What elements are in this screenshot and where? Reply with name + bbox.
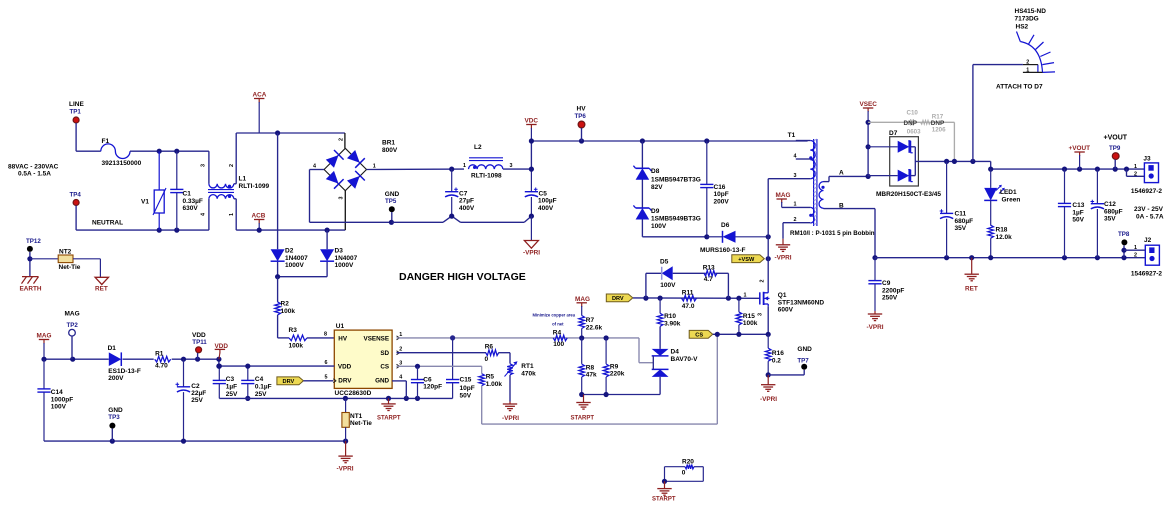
svg-text:Minimize copper area: Minimize copper area bbox=[533, 313, 576, 318]
svg-text:Net-Tie: Net-Tie bbox=[350, 420, 372, 427]
net tag CS bbox=[689, 330, 713, 338]
wire Q1 drain bbox=[767, 237, 769, 291]
bridge diode NE bbox=[346, 149, 365, 168]
diode D1 bbox=[109, 352, 122, 366]
pin name GND bbox=[375, 378, 389, 385]
pin name SD bbox=[380, 350, 389, 357]
value R11 bbox=[682, 303, 695, 310]
junction bypass left bbox=[643, 296, 648, 301]
junction Q1 source bbox=[766, 332, 771, 337]
label 23V bbox=[1134, 206, 1164, 213]
value C11 bbox=[955, 218, 974, 225]
resistor R15 bbox=[736, 298, 742, 334]
value C4 volt bbox=[255, 391, 267, 398]
junction pin4 gnd bbox=[404, 396, 409, 401]
svg-text:4.70: 4.70 bbox=[155, 362, 168, 369]
label TP2 bbox=[67, 322, 79, 329]
svg-text:0.5A - 1.5A: 0.5A - 1.5A bbox=[18, 171, 51, 178]
svg-text:2: 2 bbox=[339, 138, 345, 141]
ground STARPT divider bbox=[576, 395, 590, 410]
net tag DRV gate bbox=[606, 294, 633, 302]
net tag DRV U1 bbox=[277, 377, 304, 385]
junction R8 bottom bbox=[579, 392, 584, 397]
label TP7 bbox=[797, 358, 809, 365]
pin 3 L2 bbox=[510, 163, 513, 169]
svg-text:R20: R20 bbox=[682, 458, 694, 465]
svg-text:DRV: DRV bbox=[283, 379, 295, 385]
value C15 volt bbox=[460, 392, 472, 399]
value C14 volt bbox=[51, 404, 67, 411]
value U1 bbox=[335, 390, 372, 397]
capacitor C10 DNP bbox=[911, 119, 914, 126]
value D1 volt bbox=[108, 375, 124, 382]
wire node B bbox=[824, 209, 876, 258]
pin 2 BR1 bbox=[339, 138, 345, 141]
svg-text:100k: 100k bbox=[289, 343, 304, 350]
junction C13 top bbox=[1062, 167, 1067, 172]
value C3 volt bbox=[226, 391, 238, 398]
capacitor C12 bbox=[1091, 169, 1105, 258]
value C2 volt bbox=[191, 397, 203, 404]
junction C7 bottom bbox=[449, 214, 454, 219]
svg-text:GND: GND bbox=[375, 378, 389, 385]
wire bottom rail bbox=[875, 257, 1145, 259]
net VDD red bbox=[215, 343, 229, 350]
svg-text:DRV: DRV bbox=[612, 296, 624, 302]
svg-text:R16: R16 bbox=[772, 350, 784, 357]
svg-text:TP4: TP4 bbox=[70, 192, 82, 199]
svg-text:R10: R10 bbox=[664, 313, 676, 320]
svg-text:1: 1 bbox=[744, 292, 747, 298]
label R20 bbox=[682, 458, 694, 465]
junction VDD tick bbox=[216, 357, 221, 362]
svg-text:CS: CS bbox=[380, 364, 389, 371]
svg-text:RM10/I : P-1031 5 pin Bobbin: RM10/I : P-1031 5 pin Bobbin bbox=[790, 230, 875, 237]
junction TP2 bbox=[70, 357, 75, 362]
dnp R17 bbox=[931, 120, 945, 127]
connector J2 bbox=[1145, 245, 1159, 265]
label D2 bbox=[285, 248, 294, 255]
svg-text:ATTACH TO D7: ATTACH TO D7 bbox=[996, 84, 1043, 91]
label LED1 bbox=[1000, 189, 1017, 196]
svg-text:22µF: 22µF bbox=[191, 390, 206, 397]
ground -VPRI R16 bbox=[761, 375, 775, 391]
wire BR1 pin4 to dc- bbox=[310, 170, 392, 223]
svg-text:0603: 0603 bbox=[907, 129, 921, 136]
value D3 bbox=[335, 255, 358, 262]
value C13 bbox=[1072, 209, 1083, 216]
capacitor C3 bbox=[213, 366, 226, 398]
svg-text:1546927-2: 1546927-2 bbox=[1131, 188, 1162, 195]
value Q1 volt bbox=[778, 307, 794, 314]
pin 2 L1 bbox=[229, 164, 235, 167]
net tick VDD bbox=[215, 349, 225, 359]
label C13 bbox=[1072, 202, 1084, 209]
pin 4 U1 bbox=[399, 375, 402, 381]
net MAG R7 bbox=[575, 296, 590, 303]
pin 1 Q1 bbox=[744, 292, 747, 298]
svg-text:R4: R4 bbox=[553, 329, 562, 336]
node B bbox=[839, 203, 844, 210]
junction D7 top anode bbox=[866, 144, 871, 149]
svg-text:50V: 50V bbox=[1072, 217, 1084, 224]
svg-text:DRV: DRV bbox=[338, 378, 352, 385]
svg-text:88VAC - 230VAC: 88VAC - 230VAC bbox=[8, 164, 59, 171]
svg-text:D6: D6 bbox=[721, 222, 730, 229]
svg-text:RLTI-1098: RLTI-1098 bbox=[471, 172, 502, 179]
resistor R8 bbox=[579, 338, 585, 395]
net STARPT R20 bbox=[652, 497, 676, 503]
capacitor C4 bbox=[241, 366, 254, 398]
svg-text:82V: 82V bbox=[651, 184, 663, 191]
net STARPT U1 bbox=[377, 415, 401, 421]
label NT1 bbox=[350, 413, 363, 420]
junction TP11 bbox=[195, 357, 200, 362]
pin 1 J2 bbox=[1134, 245, 1137, 251]
svg-text:120pF: 120pF bbox=[423, 384, 442, 391]
wire vsense jog to D4 bbox=[639, 338, 653, 363]
wire heatsink to rail bbox=[973, 65, 1023, 162]
value D8 volt bbox=[651, 184, 663, 191]
junction +VSW bbox=[766, 256, 771, 261]
led LED1 bbox=[984, 169, 1005, 225]
junction R10 top bbox=[658, 296, 663, 301]
wire T1 pin1 MAG bbox=[782, 206, 811, 208]
label D6 bbox=[721, 222, 730, 229]
value C1 volt bbox=[183, 205, 199, 212]
svg-text:400V: 400V bbox=[459, 205, 475, 212]
svg-text:C13: C13 bbox=[1072, 202, 1084, 209]
test point TP7 bbox=[801, 364, 807, 370]
resistor R13 bbox=[704, 271, 717, 277]
svg-text:1000V: 1000V bbox=[335, 262, 354, 269]
label TP9 bbox=[1109, 145, 1121, 152]
svg-text:R11: R11 bbox=[682, 289, 694, 296]
resistor R10 bbox=[657, 298, 663, 326]
label D5 bbox=[660, 258, 669, 265]
wire TP2 stub bbox=[71, 336, 74, 359]
bridge diode NW bbox=[325, 150, 344, 169]
label 7173DG bbox=[1015, 15, 1039, 22]
svg-text:D2: D2 bbox=[285, 248, 294, 255]
diode D7 top bbox=[868, 141, 913, 153]
pin name DRV bbox=[338, 378, 352, 385]
junction C12 bottom bbox=[1095, 255, 1100, 260]
tiny minimize bbox=[533, 313, 576, 318]
svg-text:27µF: 27µF bbox=[459, 198, 474, 205]
label R13 bbox=[703, 264, 715, 271]
diode D4 top bbox=[652, 349, 669, 356]
svg-text:680µF: 680µF bbox=[1104, 208, 1123, 215]
svg-text:STARPT: STARPT bbox=[571, 416, 595, 422]
label R7 bbox=[586, 317, 595, 324]
label D9 bbox=[651, 208, 660, 215]
label F1 bbox=[102, 138, 110, 145]
pin 3 T1 bbox=[794, 173, 797, 179]
svg-text:RLTI-1099: RLTI-1099 bbox=[239, 183, 270, 190]
wire T1 top pin bbox=[796, 140, 811, 142]
label L1 bbox=[239, 176, 247, 183]
value Q1 bbox=[778, 299, 825, 306]
junction NT1 top bbox=[343, 396, 348, 401]
svg-text:D9: D9 bbox=[651, 208, 660, 215]
label bobbin bbox=[790, 230, 875, 237]
svg-text:1546927-2: 1546927-2 bbox=[1131, 271, 1162, 278]
svg-text:3: 3 bbox=[339, 197, 345, 200]
junction R18 bottom bbox=[988, 255, 993, 260]
value C12 bbox=[1104, 208, 1123, 215]
wire VSENSE bbox=[397, 337, 640, 339]
value C6 bbox=[423, 384, 442, 391]
svg-text:R7: R7 bbox=[586, 317, 595, 324]
capacitor C9 bbox=[868, 258, 881, 311]
value BR1 bbox=[382, 147, 398, 154]
wire TP6 stub bbox=[581, 128, 583, 141]
capacitor C16 bbox=[700, 141, 713, 237]
rectifier D7 box bbox=[890, 137, 919, 186]
wire bypass branch bbox=[646, 273, 729, 298]
wire R16 to TP7 bbox=[768, 370, 804, 375]
svg-text:STARPT: STARPT bbox=[652, 497, 676, 503]
value R20 bbox=[682, 470, 686, 477]
svg-text:C1: C1 bbox=[183, 191, 192, 198]
value D6 bbox=[700, 247, 746, 254]
label C14 bbox=[51, 389, 63, 396]
svg-text:F1: F1 bbox=[102, 138, 110, 145]
test point TP5 bbox=[389, 206, 395, 212]
svg-text:0.33µF: 0.33µF bbox=[183, 198, 203, 205]
svg-text:C7: C7 bbox=[459, 190, 468, 197]
svg-text:1.00k: 1.00k bbox=[486, 381, 503, 388]
diode D7 bottom bbox=[868, 170, 913, 182]
svg-text:+VSW: +VSW bbox=[738, 257, 755, 263]
svg-text:1: 1 bbox=[1134, 245, 1137, 251]
net RET bbox=[965, 285, 978, 292]
svg-text:8: 8 bbox=[324, 332, 327, 338]
svg-text:MAG: MAG bbox=[65, 311, 80, 318]
resistor R3 bbox=[289, 335, 307, 341]
svg-text:50V: 50V bbox=[460, 392, 472, 399]
net tick VSEC bbox=[863, 108, 873, 122]
svg-text:1SMB5949BT3G: 1SMB5949BT3G bbox=[651, 216, 701, 223]
junction LED top bbox=[988, 167, 993, 172]
value R2 bbox=[281, 308, 296, 315]
label TP3 bbox=[108, 414, 120, 421]
pin 2 HS2 bbox=[1026, 59, 1029, 65]
junction CS long bbox=[715, 332, 720, 337]
svg-text:MAG: MAG bbox=[776, 192, 791, 199]
label R18 bbox=[996, 227, 1008, 234]
wire R2 to R3 bbox=[278, 315, 289, 338]
svg-text:C2: C2 bbox=[191, 383, 200, 390]
pin 2 Q1 bbox=[760, 280, 766, 283]
svg-text:12.0k: 12.0k bbox=[996, 234, 1013, 241]
svg-text:1: 1 bbox=[1026, 67, 1029, 73]
label C4 bbox=[255, 376, 264, 383]
junction R16 bottom bbox=[766, 372, 771, 377]
junction C7 top bbox=[449, 167, 454, 172]
label C5 bbox=[539, 190, 548, 197]
svg-text:1206: 1206 bbox=[932, 127, 946, 134]
junction C4 bottom bbox=[245, 396, 250, 401]
svg-text:TP1: TP1 bbox=[70, 109, 82, 116]
svg-text:1N4007: 1N4007 bbox=[335, 255, 358, 262]
junction C1 bottom bbox=[174, 228, 179, 233]
svg-text:3: 3 bbox=[201, 164, 207, 167]
svg-text:5: 5 bbox=[325, 374, 328, 380]
net -VPRI T1 bbox=[775, 255, 792, 262]
value C16 volt bbox=[714, 198, 730, 205]
junction ACB-D3 bbox=[325, 228, 330, 233]
value R9 bbox=[610, 371, 625, 378]
pin 4 T1 bbox=[794, 153, 797, 159]
svg-text:1µF: 1µF bbox=[226, 384, 237, 391]
svg-text:1: 1 bbox=[373, 163, 376, 169]
svg-text:C15: C15 bbox=[460, 376, 472, 383]
svg-text:4: 4 bbox=[201, 213, 207, 216]
net VSEC bbox=[860, 101, 878, 108]
svg-text:3: 3 bbox=[757, 313, 763, 316]
ground RET bbox=[965, 258, 979, 281]
label C3 bbox=[226, 376, 235, 383]
label R6 bbox=[485, 344, 494, 351]
svg-text:R8: R8 bbox=[586, 364, 595, 371]
label R1 bbox=[155, 351, 164, 358]
junction R20 bbox=[662, 479, 667, 484]
svg-text:V1: V1 bbox=[141, 199, 149, 206]
dnp C10 bbox=[904, 120, 918, 127]
wire HV rail bbox=[531, 140, 807, 142]
pin 1 BR1 bbox=[373, 163, 376, 169]
junction C2 bottom bbox=[181, 439, 186, 444]
junction C3 top bbox=[217, 364, 222, 369]
value R1 bbox=[155, 362, 168, 369]
svg-text:2: 2 bbox=[229, 164, 235, 167]
junction C12 top bbox=[1095, 167, 1100, 172]
wire vdd main bbox=[44, 358, 109, 360]
svg-text:400V: 400V bbox=[538, 205, 554, 212]
value D2 volt bbox=[285, 262, 304, 269]
value D1 bbox=[108, 368, 141, 375]
junction TP8 rail bbox=[1121, 255, 1126, 260]
svg-text:100V: 100V bbox=[651, 223, 667, 230]
svg-text:C3: C3 bbox=[226, 376, 235, 383]
svg-text:2: 2 bbox=[1134, 253, 1137, 259]
value C2 bbox=[191, 390, 206, 397]
net -VPRI below C5 bbox=[523, 250, 540, 257]
label NT2 bbox=[59, 248, 72, 255]
label L2 bbox=[474, 144, 482, 151]
net-tie NT2 bbox=[30, 255, 101, 277]
resistor R17 DNP bbox=[921, 120, 931, 124]
svg-text:47k: 47k bbox=[586, 372, 597, 379]
capacitor C5 bbox=[525, 169, 538, 216]
junction TP9 bbox=[1113, 167, 1118, 172]
svg-text:-VPRI: -VPRI bbox=[337, 466, 354, 473]
wire D1 to R1 bbox=[123, 358, 154, 360]
value C5 volt bbox=[538, 205, 554, 212]
pin 2 T1 bbox=[794, 217, 797, 223]
svg-text:HV: HV bbox=[577, 106, 587, 113]
svg-text:200V: 200V bbox=[714, 198, 730, 205]
svg-text:C14: C14 bbox=[51, 389, 63, 396]
resistor R16 bbox=[765, 334, 771, 375]
svg-text:100V: 100V bbox=[660, 282, 676, 289]
wire output rail bbox=[991, 161, 1145, 169]
wire DRV tag to U1 bbox=[304, 380, 334, 382]
svg-text:D3: D3 bbox=[335, 248, 344, 255]
diode D6 bbox=[707, 231, 768, 243]
svg-text:D8: D8 bbox=[651, 168, 660, 175]
svg-text:35V: 35V bbox=[1104, 216, 1116, 223]
svg-text:STF13NM60ND: STF13NM60ND bbox=[778, 299, 825, 306]
junction R17C10 bottom bbox=[952, 159, 957, 164]
ground STARPT R20 bbox=[657, 481, 671, 495]
capacitor C1 bbox=[170, 151, 183, 230]
connector J3 bbox=[1144, 163, 1158, 183]
label V1 bbox=[141, 199, 149, 206]
diode D2 bbox=[271, 249, 285, 261]
diode D3 bbox=[320, 249, 334, 261]
svg-text:39213150000: 39213150000 bbox=[102, 160, 142, 167]
net tick MAG left bbox=[39, 340, 49, 360]
svg-text:2: 2 bbox=[399, 347, 402, 353]
wire TP11 stub bbox=[197, 353, 199, 359]
wire R3 to U1 HV bbox=[307, 337, 334, 339]
pin 6 U1 bbox=[325, 360, 328, 366]
svg-text:25V: 25V bbox=[191, 397, 203, 404]
label C6 bbox=[423, 376, 432, 383]
svg-text:Net-Tie: Net-Tie bbox=[59, 264, 81, 271]
label U1 bbox=[336, 323, 345, 330]
svg-text:2: 2 bbox=[1134, 171, 1137, 177]
svg-text:680µF: 680µF bbox=[955, 218, 974, 225]
svg-text:VDD: VDD bbox=[215, 343, 229, 350]
svg-text:R3: R3 bbox=[289, 327, 298, 334]
svg-text:-VPRI: -VPRI bbox=[760, 396, 777, 403]
pin 1 L1 bbox=[229, 213, 235, 216]
svg-text:22.6k: 22.6k bbox=[586, 324, 603, 331]
label J3 bbox=[1143, 156, 1151, 163]
value R15 bbox=[743, 320, 758, 327]
label Q1 bbox=[778, 292, 787, 299]
junction B bottom rail bbox=[872, 255, 877, 260]
label R15 bbox=[743, 313, 755, 320]
svg-text:25V: 25V bbox=[255, 391, 267, 398]
svg-text:-VPRI: -VPRI bbox=[502, 415, 519, 422]
wire L1 pin2 up bbox=[234, 133, 345, 184]
svg-text:C12: C12 bbox=[1104, 201, 1116, 208]
svg-text:TP2: TP2 bbox=[67, 322, 79, 329]
capacitor C14 bbox=[37, 359, 50, 441]
label NEUTRAL bbox=[92, 220, 123, 227]
svg-text:1: 1 bbox=[463, 163, 466, 169]
pin 1 L2 bbox=[463, 163, 466, 169]
svg-text:C10: C10 bbox=[907, 110, 919, 117]
net -VPRI C9 bbox=[867, 324, 884, 331]
resistor R7 bbox=[579, 316, 585, 339]
capacitor C6 bbox=[411, 366, 424, 398]
svg-text:4: 4 bbox=[794, 153, 797, 159]
junction R7 R8 bbox=[579, 335, 584, 340]
value R18 bbox=[996, 234, 1013, 241]
svg-text:10pF: 10pF bbox=[714, 191, 729, 198]
wire TP5 bbox=[391, 212, 393, 222]
svg-text:C16: C16 bbox=[714, 184, 726, 191]
svg-text:D7: D7 bbox=[889, 130, 898, 137]
value LED1 Green bbox=[1002, 196, 1021, 203]
junction D2 D3 bbox=[275, 274, 280, 279]
